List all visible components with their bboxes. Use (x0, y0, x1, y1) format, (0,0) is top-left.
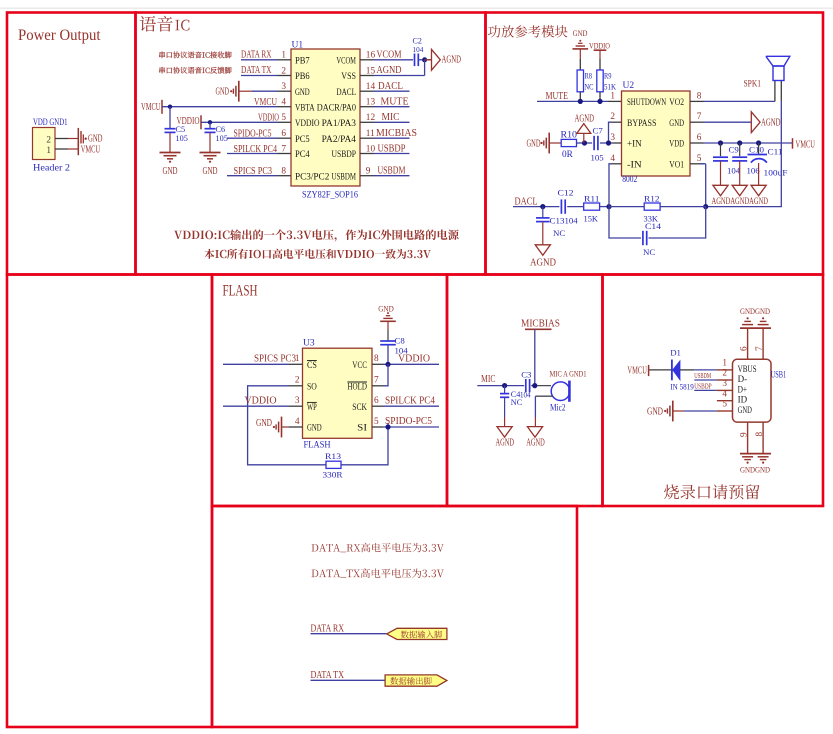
svg-text:DACR/PA0: DACR/PA0 (317, 102, 357, 112)
svg-text:11: 11 (366, 129, 375, 139)
connector Header2 body (33, 128, 56, 160)
svg-text:SO: SO (307, 381, 317, 391)
wire SPILCK_PC4 to U1 pin7 (227, 153, 278, 155)
wire net SPIDO-PC5 from U3 pin5 (383, 426, 439, 428)
pin 1 of U1 (278, 59, 292, 61)
svg-text:VDDIO: VDDIO (589, 41, 610, 51)
svg-text:U2: U2 (623, 81, 635, 91)
power port VMCU at Header2 pin1 (77, 141, 79, 155)
svg-text:105: 105 (591, 153, 605, 163)
svg-text:USB1: USB1 (771, 371, 787, 381)
wire net USBDM to USB pin2 (694, 379, 717, 381)
junction R9/MUTE (597, 99, 602, 104)
svg-text:C6: C6 (216, 125, 226, 134)
capacitor C9 (720, 143, 722, 156)
svg-text:GND: GND (647, 406, 663, 417)
wire net USBDP to USB pin3 (694, 389, 717, 391)
svg-text:SPICS PC3: SPICS PC3 (254, 354, 296, 365)
svg-text:PA1/PA3: PA1/PA3 (322, 118, 357, 128)
capacitor C8 (380, 340, 396, 342)
pin 1 of U3 (289, 363, 303, 365)
svg-text:VO1: VO1 (669, 159, 684, 169)
svg-text:13: 13 (366, 98, 376, 108)
svg-text:VMCU: VMCU (796, 139, 816, 150)
wire junction to R12 (609, 206, 644, 208)
wire net DATA_RX (311, 633, 387, 635)
svg-text:C9: C9 (729, 144, 740, 154)
svg-text:+IN: +IN (627, 139, 642, 149)
svg-text:3: 3 (610, 133, 615, 143)
microphone Mic2 symbol (551, 382, 570, 401)
svg-text:104: 104 (413, 46, 424, 54)
svg-text:GND: GND (669, 118, 684, 128)
svg-text:NC: NC (585, 82, 594, 92)
svg-text:3: 3 (281, 82, 286, 92)
wire net DACL from U1 pin 14 (374, 90, 410, 92)
wire net MUTE from U1 pin 13 (374, 106, 410, 108)
pin wires R8 R9 to MUTE wire (579, 92, 581, 102)
svg-text:VBUS: VBUS (738, 364, 757, 374)
svg-text:6: 6 (740, 346, 750, 351)
svg-text:C14: C14 (645, 221, 662, 231)
svg-text:CS: CS (307, 360, 317, 370)
svg-text:R13: R13 (325, 451, 342, 461)
svg-text:R11: R11 (584, 194, 600, 204)
wire VDDIO to U1 pin5 (201, 121, 278, 123)
wire GND to C8 (387, 321, 389, 330)
svg-text:MUTE: MUTE (546, 91, 569, 102)
svg-text:VSS: VSS (341, 71, 356, 81)
svg-text:USBDP: USBDP (694, 383, 711, 391)
svg-text:6: 6 (374, 396, 379, 406)
svg-text:FLASH: FLASH (223, 283, 258, 300)
resistor R10 (561, 139, 576, 146)
svg-text:VCOM: VCOM (336, 55, 356, 65)
svg-text:PB7: PB7 (295, 55, 310, 65)
svg-text:NC: NC (511, 398, 523, 407)
svg-text:USBDP: USBDP (378, 143, 406, 154)
power port AGND under C10 (732, 185, 747, 196)
wire U2 pin2 BYPASS down to +IN node (612, 121, 622, 123)
svg-text:SPILCK PC4: SPILCK PC4 (385, 395, 436, 406)
svg-text:1: 1 (281, 51, 286, 61)
svg-text:AGND: AGND (442, 55, 462, 66)
wire net MICBIAS from U1 pin 11 (374, 137, 410, 139)
annotation serial-feedback (159, 67, 231, 74)
IC U2 body 8002 amplifier (622, 91, 691, 176)
wire R11 to -IN junction (600, 206, 609, 208)
svg-text:-IN: -IN (627, 159, 642, 169)
resistor R8 (577, 70, 583, 92)
wire mic ground terminal (535, 395, 553, 397)
svg-text:R8: R8 (585, 71, 593, 81)
svg-text:C13: C13 (550, 216, 566, 226)
svg-text:14: 14 (366, 82, 376, 92)
wire U3 pin2 SO loop to R13 (248, 386, 326, 465)
pin 7 of U3 (372, 385, 383, 387)
wire net MIC (477, 385, 524, 387)
svg-text:2: 2 (281, 66, 286, 76)
wire pin1 to VMCU (68, 148, 78, 150)
shield pins 9 8 of USB1 (747, 422, 749, 453)
wire speaker negative down to VO1 net (706, 101, 782, 207)
svg-text:DACL: DACL (515, 196, 538, 207)
port text shuju shuru jiao (401, 631, 442, 639)
svg-text:105: 105 (216, 134, 228, 143)
junction VMCU/C5 (168, 105, 172, 109)
junction AGND stub on +IN wire (582, 140, 587, 145)
pin 12 of U1 (360, 121, 374, 123)
diode D1 IN5819 (671, 360, 673, 381)
svg-text:IN 5819: IN 5819 (670, 381, 694, 391)
ground GND under C5 (160, 152, 181, 154)
shield pins 6 7 of USB1 (747, 328, 749, 359)
svg-text:DATA TX: DATA TX (311, 670, 345, 681)
svg-text:AGNDAGNDAGND: AGNDAGNDAGND (712, 196, 769, 207)
power port AGND at U2 pin7 (751, 112, 760, 133)
pin 7 of U1 (278, 153, 292, 155)
note VDDIO 3.3V line1 (174, 229, 459, 241)
svg-text:BYPASS: BYPASS (627, 118, 656, 128)
svg-text:2: 2 (610, 112, 615, 122)
svg-text:D+: D+ (738, 384, 748, 394)
svg-text:U3: U3 (303, 339, 315, 349)
wire SPICS_PC3 to U1 pin8 (227, 175, 278, 177)
section title yuyin IC (140, 16, 173, 32)
wire net MUTE to U2 pin1 (537, 100, 608, 102)
svg-text:GND: GND (527, 139, 541, 150)
wire C4 to AGND (504, 397, 506, 417)
svg-text:USBDP: USBDP (332, 149, 357, 159)
junction C9 on VDD (718, 140, 723, 145)
svg-text:AGND: AGND (575, 114, 595, 125)
wire net USBDM from U1 pin 9 (374, 175, 410, 177)
svg-text:VMCU: VMCU (627, 366, 647, 377)
svg-text:9: 9 (366, 167, 371, 177)
pin 8 of U1 (278, 175, 292, 177)
svg-text:Power Output: Power Output (18, 27, 101, 44)
capacitor C5 (165, 128, 176, 130)
svg-text:8: 8 (755, 432, 765, 437)
svg-text:SPILCK PC4: SPILCK PC4 (234, 144, 278, 155)
svg-text:16: 16 (366, 51, 376, 61)
junction DACL/C13 (540, 204, 545, 209)
wire net USBDP from U1 pin 10 (374, 153, 410, 155)
ground GND at USB shield bottom (740, 453, 771, 455)
pin 6 of U1 (278, 137, 292, 139)
svg-text:MICBIAS: MICBIAS (376, 128, 417, 139)
wire U3 pin7 HOLD up to VCC (383, 364, 388, 386)
wire VDDIO junction down to C6 (209, 122, 211, 128)
svg-text:15K: 15K (584, 214, 599, 224)
junction MIC/C4 (502, 383, 507, 388)
section note shaolukou qing yuliu (664, 484, 760, 499)
power port AGND right of C2 (432, 49, 441, 70)
svg-text:C11: C11 (768, 147, 783, 157)
power port AGND under C4 (497, 427, 512, 438)
section title gongfang cankao mokuai (488, 25, 568, 37)
svg-text:MIC: MIC (382, 112, 400, 123)
wire -IN feedback up to U2 pin4 (609, 164, 612, 207)
svg-text:104: 104 (565, 216, 579, 226)
svg-text:MICBIAS: MICBIAS (521, 318, 560, 329)
svg-text:8: 8 (281, 167, 286, 177)
svg-text:4: 4 (722, 389, 727, 399)
junction MICBIAS/mic (532, 383, 537, 388)
wire U1 pin16 to C2 (374, 59, 414, 61)
svg-text:2: 2 (46, 135, 51, 145)
svg-text:AGND: AGND (377, 65, 402, 76)
wire D1 to USB pin1 VBUS (680, 369, 694, 371)
pin 2 of U3 (289, 385, 303, 387)
svg-text:SI: SI (357, 423, 367, 433)
svg-text:1: 1 (46, 146, 51, 156)
svg-text:3: 3 (295, 396, 300, 406)
junction VO1/R12/speaker (703, 204, 708, 209)
svg-text:1: 1 (610, 91, 615, 101)
pin 3 of USB1 (717, 389, 733, 391)
svg-text:5: 5 (697, 154, 702, 164)
svg-text:GND: GND (573, 28, 588, 38)
wire C3 to microphone (531, 385, 551, 387)
svg-text:3: 3 (722, 379, 727, 389)
svg-text:51K: 51K (604, 82, 617, 92)
junction C8/VCC (385, 362, 390, 367)
svg-text:9: 9 (740, 432, 750, 437)
svg-text:GND: GND (738, 405, 753, 415)
svg-text:SCK: SCK (352, 402, 367, 412)
svg-text:6: 6 (697, 133, 702, 143)
svg-text:VCOM: VCOM (377, 49, 403, 60)
svg-text:GND: GND (295, 87, 310, 97)
svg-text:AGND: AGND (526, 438, 545, 449)
svg-text:MUTE: MUTE (381, 97, 409, 108)
svg-text:C5: C5 (176, 125, 186, 134)
svg-text:DATA RX: DATA RX (311, 623, 345, 634)
capacitor C2 (414, 54, 416, 67)
svg-text:C7: C7 (593, 126, 604, 136)
wire net DATA_RX to U1 pin1 (241, 59, 278, 61)
svg-text:15: 15 (366, 66, 376, 76)
wire C5 to GND (169, 133, 171, 153)
wire GND down to R8 (579, 49, 581, 59)
svg-text:DATA RX: DATA RX (241, 49, 272, 60)
pin 6 of U3 (372, 405, 383, 407)
svg-text:HOLD: HOLD (347, 381, 367, 391)
svg-text:Mic2: Mic2 (550, 403, 566, 413)
wire net DATA_TX to U1 pin2 (241, 75, 278, 77)
svg-text:SPK1: SPK1 (744, 79, 762, 90)
pin 5 of U1 (278, 121, 292, 123)
svg-text:VDDIO: VDDIO (398, 354, 430, 365)
wire U3 pin8 VCC to VDDIO (383, 363, 439, 365)
svg-text:VDD GND1: VDD GND1 (33, 118, 68, 128)
wire GND to U3 pin4 (282, 426, 289, 428)
wire VMCU to U1 pin4 (162, 106, 278, 108)
capacitor C3 (525, 379, 527, 392)
svg-text:NC: NC (553, 228, 565, 238)
svg-text:AGND: AGND (495, 438, 514, 449)
pin 4 of U1 (278, 106, 292, 108)
svg-text:AGND: AGND (530, 258, 556, 269)
svg-text:8: 8 (374, 354, 379, 364)
svg-text:GND: GND (203, 166, 218, 177)
svg-text:7: 7 (697, 112, 702, 122)
svg-text:GND: GND (256, 418, 272, 429)
svg-text:FLASH: FLASH (304, 441, 331, 451)
resistor R9 (597, 70, 603, 92)
capacitor C11 electrolytic (758, 143, 760, 154)
pin 3 of U1 (278, 90, 292, 92)
wire net MIC from U1 pin 12 (374, 121, 410, 123)
svg-text:2: 2 (295, 376, 300, 386)
svg-text:GND: GND (88, 134, 103, 145)
svg-text:MIC: MIC (481, 374, 496, 385)
svg-text:SHUTDOWN: SHUTDOWN (627, 97, 666, 107)
pin 14 of U1 (360, 90, 374, 92)
svg-text:GNDGND: GNDGND (740, 464, 770, 474)
wire R13 up to SI net (341, 423, 388, 465)
wire C14 bypass loop (609, 207, 641, 238)
top hairline (0, 7, 833, 9)
wire net VDDIO to U3 pin3 (223, 405, 289, 407)
wire MICBIAS down to mic node (534, 329, 536, 385)
power port AGND under C11 (751, 185, 766, 196)
junction C2/AGND/pin15 (422, 57, 427, 62)
pin 15 of U1 (360, 75, 374, 77)
speaker SPK1 (766, 56, 790, 80)
port DATA_TX output flag (385, 675, 447, 686)
connector USB1 body (733, 359, 772, 422)
capacitor C13 (542, 207, 544, 218)
svg-text:7: 7 (374, 376, 379, 386)
wire C2 to AGND junction (418, 59, 431, 61)
svg-text:PC3/PC2: PC3/PC2 (295, 171, 330, 181)
power port AGND under mic (527, 427, 542, 438)
svg-text:GND: GND (216, 87, 230, 98)
svg-text:ID: ID (738, 395, 748, 405)
pin 4 of U3 (289, 426, 303, 428)
wire GND to R10 (550, 142, 561, 144)
junction VDDIO/C6 (208, 120, 212, 124)
svg-text:6: 6 (281, 129, 286, 139)
resistor R13 (326, 461, 341, 468)
pin 2 of USB1 (717, 379, 733, 381)
wire C6 to GND (209, 133, 211, 153)
svg-text:NC: NC (643, 247, 655, 257)
svg-text:5: 5 (722, 400, 727, 410)
svg-text:104: 104 (727, 166, 741, 176)
note VDDIO 3.3V line2 (204, 249, 431, 259)
svg-text:WP: WP (307, 402, 317, 412)
resistor R12 (644, 203, 660, 210)
wire net SPILCK_PC4 from U3 pin6 (383, 405, 439, 407)
svg-text:DACL: DACL (378, 81, 403, 92)
svg-text:SPIDO-PC5: SPIDO-PC5 (385, 416, 432, 427)
annotation serial-receive (159, 52, 231, 74)
svg-text:0R: 0R (562, 150, 574, 160)
svg-text:VDDIO: VDDIO (295, 118, 320, 128)
svg-text:7: 7 (281, 144, 286, 154)
svg-text:8: 8 (697, 91, 702, 101)
svg-text:VMCU: VMCU (254, 97, 277, 108)
capacitor C6 (205, 128, 216, 130)
wire GND to USB pin5 (684, 410, 717, 412)
pin 13 of U1 (360, 106, 374, 108)
svg-text:12: 12 (366, 113, 376, 123)
svg-text:AGND: AGND (761, 118, 781, 129)
wire C11 to AGND (758, 163, 760, 185)
svg-text:PA2/PA4: PA2/PA4 (322, 134, 357, 144)
svg-text:2: 2 (722, 369, 727, 379)
power port AGND under C13 (535, 245, 550, 256)
svg-text:D1: D1 (670, 348, 681, 358)
svg-text:C3: C3 (521, 369, 532, 379)
port text shuju shuchu jiao (390, 677, 431, 685)
ground GND under C6 (200, 152, 221, 154)
svg-text:330R: 330R (323, 470, 343, 480)
capacitor C12 (560, 199, 562, 213)
pin 9 of U1 (360, 175, 374, 177)
svg-text:4: 4 (295, 417, 300, 427)
svg-text:4: 4 (610, 154, 615, 164)
wire VMCU to diode D1 (649, 369, 671, 371)
resistor R11 (584, 203, 600, 210)
speaker SPK1 pins (774, 81, 776, 102)
svg-text:105: 105 (176, 134, 188, 143)
svg-text:GND: GND (307, 423, 322, 433)
power port AGND under C9 (713, 185, 728, 196)
wire C13 to AGND (542, 222, 544, 245)
svg-text:PB6: PB6 (295, 71, 310, 81)
svg-text:VMCU: VMCU (81, 144, 101, 155)
wire U2 pin6 VDD to VMCU (704, 142, 793, 144)
svg-text:DATA TX: DATA TX (241, 65, 272, 76)
wire U2 pin5 VO1 down (700, 163, 706, 165)
svg-text:GND: GND (378, 304, 394, 314)
svg-text:SPIDO-PC5: SPIDO-PC5 (234, 129, 272, 140)
svg-text:C12: C12 (558, 188, 574, 198)
svg-text:D-: D- (738, 374, 748, 384)
svg-text:Header 2: Header 2 (33, 164, 70, 174)
svg-text:GNDGND: GNDGND (740, 306, 770, 316)
svg-text:VMCU: VMCU (141, 102, 161, 113)
wire C10 to AGND (739, 161, 741, 185)
wire C7 to U2 pin3 (600, 142, 612, 144)
svg-text:1: 1 (722, 359, 727, 369)
junction R11/R12/-IN (606, 204, 611, 209)
wire U1 pin15 AGND (374, 75, 425, 77)
pin 16 of U1 (360, 59, 374, 61)
svg-text:SZY82F_SOP16: SZY82F_SOP16 (302, 191, 358, 201)
pin 5 of USB1 (717, 410, 733, 412)
svg-text:R9: R9 (604, 71, 612, 81)
svg-text:USBDM: USBDM (378, 166, 406, 177)
pin 4 of USB1 (717, 400, 733, 402)
svg-text:8002: 8002 (622, 175, 637, 185)
svg-text:C8: C8 (395, 336, 406, 346)
svg-text:C2: C2 (413, 37, 422, 46)
junction C10 on VDD (737, 140, 742, 145)
capacitor C7 (593, 136, 595, 150)
port DATA_RX input flag (387, 628, 447, 639)
wire C12 to R11 (567, 206, 584, 208)
wire net SPICS_PC3 to U3 pin1 (223, 363, 289, 365)
wire VMCU junction down to C5 (169, 107, 171, 129)
svg-text:MIC A GND1: MIC A GND1 (550, 368, 587, 378)
wire R10 to C7 (577, 142, 593, 144)
wire net DACL (513, 206, 559, 208)
